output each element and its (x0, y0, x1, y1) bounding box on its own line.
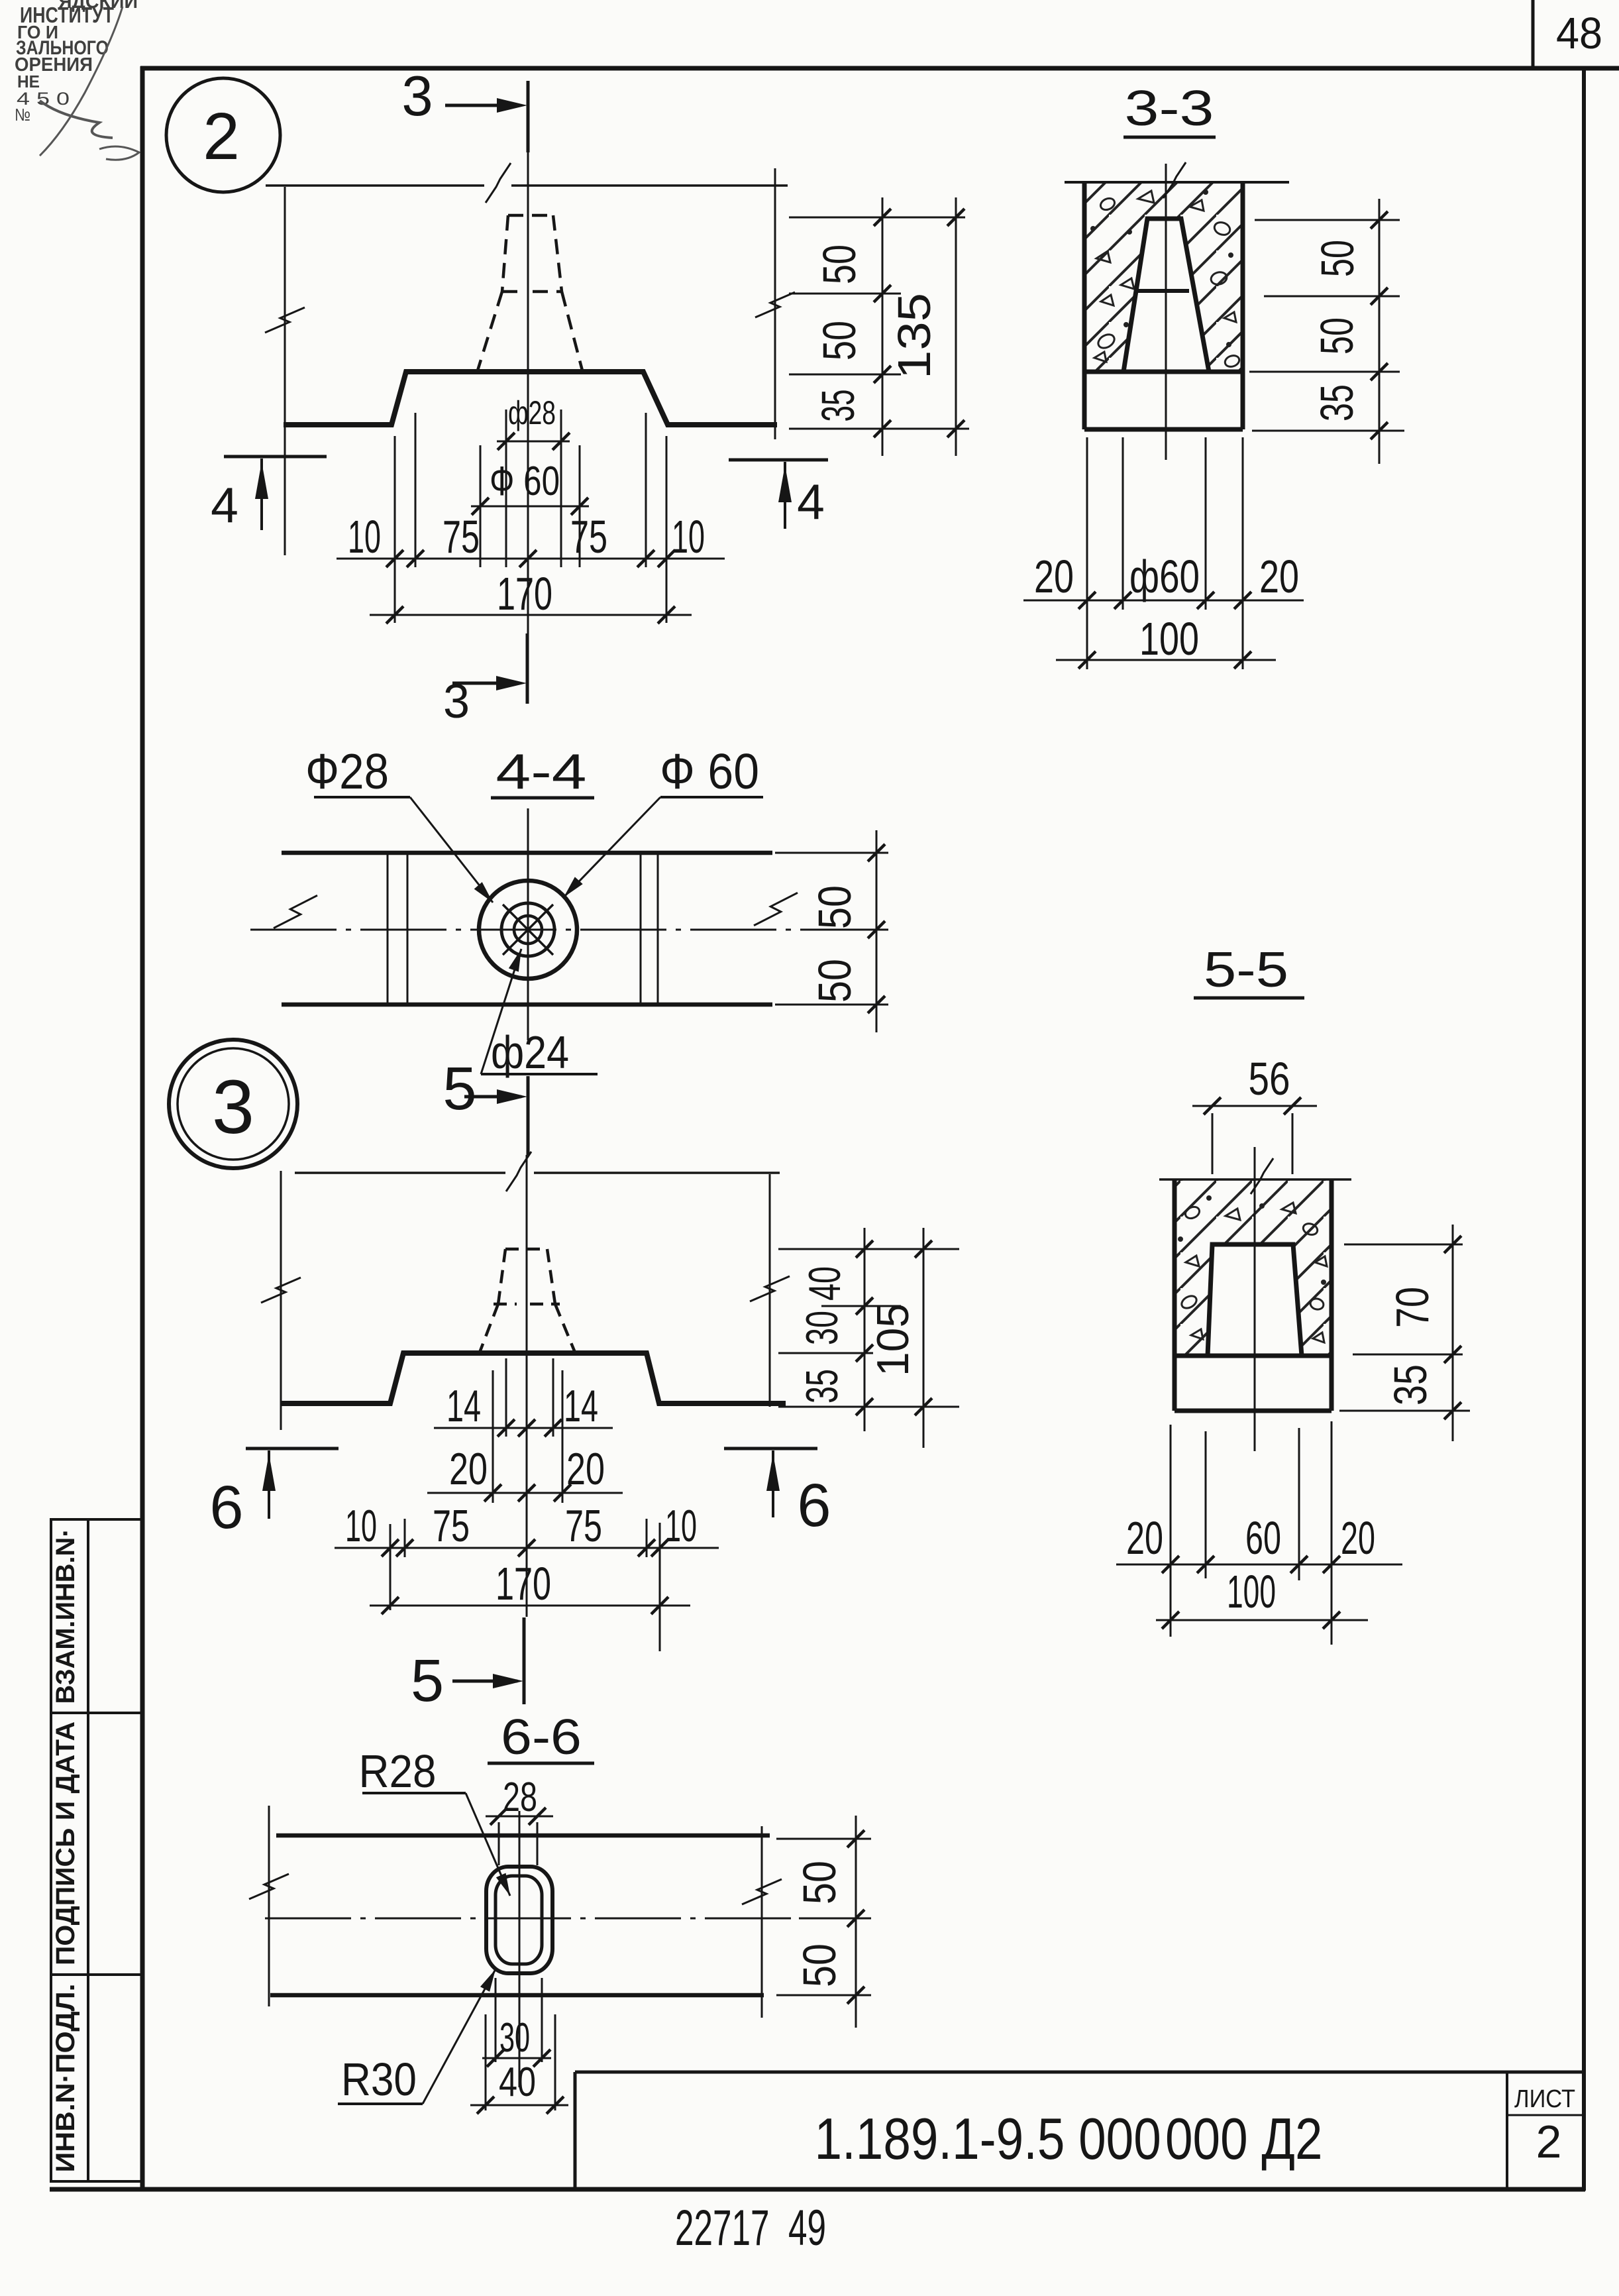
section 5-5 dimension 100 (1156, 1619, 1368, 1621)
svg-text:170: 170 (496, 1558, 551, 1610)
section mark 4 right (729, 459, 828, 462)
svg-text:4: 4 (797, 474, 825, 529)
dimension row 10 75 75 10 view 3 (390, 1524, 392, 1610)
section 3-3 aggregate marks (1092, 191, 1241, 369)
overall height dimension 135 view 2 (955, 197, 957, 456)
svg-text:5-5: 5-5 (1204, 942, 1288, 997)
section line 5 bottom (523, 1617, 526, 1704)
svg-text:100: 100 (1139, 613, 1199, 665)
svg-text:50: 50 (1311, 317, 1363, 355)
svg-text:170: 170 (497, 568, 552, 620)
svg-text:75: 75 (570, 511, 607, 563)
view marker circle 2 (166, 78, 280, 192)
svg-text:2: 2 (203, 99, 240, 174)
svg-text:20: 20 (1034, 551, 1074, 602)
key bump edge lines in plan 4-4 (387, 853, 389, 1005)
dimension 20 20 view 3 (492, 1370, 494, 1503)
section 3-3 keyway cavity (1123, 219, 1209, 372)
dimension row 10 75 75 10 view 2 (394, 436, 396, 623)
svg-text:ф24: ф24 (491, 1026, 569, 1078)
height dimensions 40 30 35 view 3 (778, 1248, 959, 1250)
svg-text:35: 35 (1384, 1364, 1436, 1405)
svg-text:100: 100 (1227, 1566, 1276, 1617)
section 3-3 width dimensions 20 f60 20 (1086, 437, 1088, 669)
svg-text:6: 6 (797, 1472, 831, 1539)
section 5-5 centerline (1254, 1147, 1256, 1451)
svg-text:ИНВ.N·ПОДЛ.: ИНВ.N·ПОДЛ. (51, 1984, 80, 2173)
svg-text:10: 10 (672, 511, 705, 563)
svg-text:20: 20 (1126, 1512, 1163, 1564)
right break extension line view 2 (774, 168, 776, 439)
section 5-5 concrete hatching (1175, 1179, 1332, 1356)
section 3-3 centerline (1165, 164, 1167, 460)
dimension 170 view 3 (370, 1605, 690, 1607)
svg-text:14: 14 (446, 1381, 481, 1431)
svg-text:56: 56 (1249, 1053, 1290, 1105)
svg-text:6: 6 (209, 1474, 243, 1541)
panel top edge line view 2 (266, 184, 484, 187)
svg-text:35: 35 (797, 1369, 847, 1403)
svg-text:10: 10 (348, 511, 381, 563)
svg-text:50: 50 (813, 245, 865, 284)
section 5-5 aggregate marks (1179, 1197, 1328, 1343)
svg-text:14: 14 (564, 1381, 598, 1431)
svg-text:50: 50 (794, 1943, 845, 1987)
svg-text:Ф28: Ф28 (305, 743, 389, 799)
svg-text:ф60: ф60 (1129, 551, 1200, 602)
svg-text:48: 48 (1556, 9, 1602, 58)
left break extension line 6-6 (268, 1806, 270, 2006)
plan strip break marks 4-4 (274, 895, 317, 928)
svg-text:70: 70 (1386, 1287, 1438, 1328)
plan strip section 6-6 (276, 1833, 770, 1838)
svg-text:20: 20 (1259, 551, 1299, 602)
right break extension line view 3 (769, 1174, 771, 1407)
svg-text:50: 50 (794, 1861, 845, 1904)
dimension 40 section 6-6 (485, 2014, 487, 2110)
svg-text:35: 35 (1311, 384, 1363, 421)
svg-text:20: 20 (566, 1444, 605, 1494)
width dimensions 50 50 section 4-4 (775, 852, 888, 854)
sidebar column lines (50, 1519, 52, 2181)
width dimensions 50 50 section 6-6 (776, 1838, 871, 1840)
panel surface with key bump view 3 (280, 1353, 786, 1403)
svg-text:4: 4 (211, 477, 238, 533)
svg-text:Ф 60: Ф 60 (660, 743, 759, 799)
svg-text:1.189.1-9.5 000 000 Д2: 1.189.1-9.5 000 000 Д2 (815, 2106, 1323, 2171)
centerline of view 3 (526, 1155, 528, 1617)
svg-text:№: № (15, 105, 30, 125)
center cross lines 6-6 (519, 1811, 521, 2087)
section 3-3 concrete hatching (1084, 182, 1243, 372)
svg-text:20: 20 (449, 1444, 488, 1494)
center cross lines 4-4 (527, 808, 529, 1040)
section 5-5 outline (1159, 1178, 1351, 1181)
section mark 6 left (246, 1447, 339, 1450)
section line 5 top (527, 1076, 530, 1155)
dimension F60 view 2 (480, 445, 482, 567)
svg-text:30: 30 (797, 1311, 847, 1345)
section 5-5 keyway cavity (1208, 1244, 1302, 1356)
svg-text:50: 50 (813, 321, 865, 360)
dimension 30 section 6-6 (495, 1978, 497, 2062)
svg-text:R28: R28 (359, 1745, 437, 1797)
svg-text:3: 3 (212, 1065, 254, 1150)
centerline of view 2 (527, 152, 529, 635)
section 3-3 dimension 100 (1056, 659, 1276, 661)
hole circles f60 f28 f24 section 4-4 (479, 881, 577, 979)
svg-text:35: 35 (812, 390, 864, 422)
dimension 14 14 view 3 (505, 1358, 507, 1437)
height dimensions 50 50 35 view 2 (789, 217, 965, 219)
title block outline (575, 2071, 1584, 2074)
svg-text:5: 5 (443, 1055, 476, 1122)
svg-text:ВЗАМ.ИНВ.N·: ВЗАМ.ИНВ.N· (51, 1529, 80, 1704)
svg-text:R30: R30 (341, 2053, 417, 2105)
svg-text:75: 75 (433, 1501, 470, 1551)
left break extension line view 3 (280, 1171, 282, 1430)
svg-text:60: 60 (1245, 1512, 1281, 1564)
svg-text:135: 135 (888, 293, 940, 379)
panel surface with key bump view 2 (284, 372, 777, 425)
svg-text:40: 40 (800, 1266, 850, 1301)
dashed keyway cone view 3 (480, 1249, 575, 1352)
panel top edge line view 3 (295, 1172, 505, 1174)
svg-text:3-3: 3-3 (1125, 80, 1214, 136)
section 5-5 width dimensions 20 60 20 (1170, 1425, 1172, 1637)
svg-text:3: 3 (443, 675, 470, 728)
dimension 170 view 2 (370, 614, 692, 616)
drawing frame border (140, 66, 145, 2191)
svg-text:10: 10 (665, 1501, 697, 1551)
svg-text:2: 2 (1536, 2116, 1562, 2167)
section 3-3 outline (1065, 181, 1289, 184)
section line 3 top (527, 81, 530, 152)
svg-text:4-4: 4-4 (496, 743, 587, 799)
svg-text:30: 30 (499, 2015, 530, 2061)
dimension f28 view 2 (505, 410, 507, 567)
svg-text:10: 10 (345, 1501, 377, 1551)
svg-text:ПОДПИСЬ И ДАТА: ПОДПИСЬ И ДАТА (51, 1722, 80, 1965)
svg-text:75: 75 (443, 511, 480, 563)
slot hole section 6-6 (486, 1867, 552, 1973)
section mark 6 right (724, 1447, 817, 1450)
svg-text:6-6: 6-6 (501, 1709, 582, 1765)
section mark 4 left (224, 455, 327, 459)
right break mark 6-6 (761, 1826, 763, 2018)
svg-text:50: 50 (809, 885, 861, 929)
svg-text:22717 49: 22717 49 (675, 2200, 826, 2256)
svg-text:Ф 60: Ф 60 (490, 459, 560, 504)
section 3-3 height dimensions 50 50 35 (1255, 219, 1400, 221)
svg-text:20: 20 (1341, 1512, 1375, 1564)
corner stamp text (15, 0, 139, 160)
section line 3 bottom (526, 633, 529, 704)
svg-text:50: 50 (1312, 240, 1363, 277)
svg-text:5: 5 (411, 1648, 444, 1714)
dashed keyway cone view 2 (478, 215, 582, 370)
section 5-5 height dimensions 70 35 (1344, 1244, 1463, 1246)
svg-text:105: 105 (868, 1303, 918, 1376)
svg-text:75: 75 (565, 1501, 602, 1551)
svg-text:ф28: ф28 (508, 394, 556, 431)
left break extension line view 2 (284, 187, 286, 555)
plan strip section 4-4 (282, 851, 772, 855)
svg-text:50: 50 (809, 959, 861, 1003)
svg-text:3: 3 (401, 65, 433, 128)
svg-text:40: 40 (499, 2059, 536, 2105)
svg-text:ЛИСТ: ЛИСТ (1514, 2085, 1575, 2113)
overall height dimension 105 view 3 (923, 1228, 925, 1448)
view marker circle 3 (169, 1040, 297, 1168)
page number box 48 (1532, 0, 1535, 68)
